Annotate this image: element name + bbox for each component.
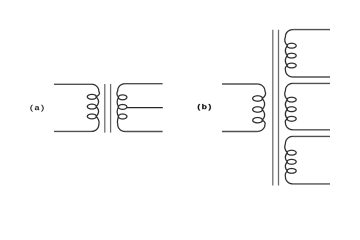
wire: (a) secondary top lead [125, 83, 163, 85]
wire: (a) primary bottom lead [54, 130, 91, 132]
transformer core (a): two lamination bars [105, 84, 111, 133]
inductor L2 secondary winding of transformer (a) [117, 84, 125, 132]
label (a) [30, 105, 43, 112]
wire: (a) secondary bottom lead [125, 131, 163, 133]
wire: (b) secondary 3 top lead [293, 135, 330, 137]
inductor secondary winding 3 of transformer (b) [285, 136, 293, 184]
label (b) [198, 104, 211, 111]
inductor secondary winding 1 of transformer (b) [285, 30, 293, 77]
wire: (b) primary bottom lead [222, 131, 257, 133]
wire: (b) primary top lead [222, 83, 257, 85]
inductor L1 primary winding of transformer (a) [91, 84, 99, 131]
wire: (b) secondary 2 top lead [293, 82, 330, 84]
wire: (a) primary top lead [54, 83, 91, 85]
wire: (b) secondary 1 bottom lead [293, 76, 330, 78]
wire: (b) secondary 2 bottom lead [293, 129, 330, 131]
transformer core (b): two lamination bars [273, 30, 279, 186]
wire: (a) secondary center tap [127, 107, 163, 109]
inductor L3 primary winding of transformer (b) [257, 84, 265, 132]
inductor secondary winding 2 of transformer (b) [285, 83, 293, 129]
wire: (b) secondary 1 top lead [293, 29, 330, 31]
wire: (b) secondary 3 bottom lead [293, 183, 330, 185]
